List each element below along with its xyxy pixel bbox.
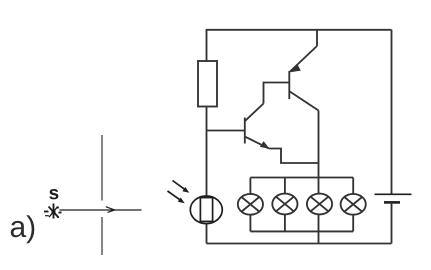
photoresistor LDR [190, 196, 222, 224]
wire lamp L1 bottom stub [249, 215, 251, 232]
lamp L1 [238, 194, 263, 215]
light source star S [44, 204, 62, 219]
slit screen lower half [101, 217, 103, 255]
wire lamp bus to bottom rail [318, 231, 320, 243]
wire lamp bottom bus [250, 230, 353, 232]
label a) [11, 215, 35, 243]
wire battery - to bottom rail [391, 202, 393, 243]
wire right side (top rail to battery +) [391, 30, 393, 195]
lamp L2 [272, 194, 297, 215]
wire lamp L3 top stub [318, 178, 320, 194]
transistor Q2 (PNP) [289, 46, 318, 111]
light ray with arrow [60, 207, 142, 213]
label S (light source) [49, 189, 58, 199]
wire lamp L2 bottom stub [284, 214, 286, 231]
battery B1 [375, 194, 412, 202]
wire top rail [206, 29, 392, 31]
wire lamp L4 bottom stub [352, 215, 354, 232]
wire top rail to Q2 emitter [316, 30, 318, 46]
light arrow 1 into LDR [173, 181, 190, 193]
wire bottom rail [207, 243, 392, 245]
light arrow 2 into LDR [168, 191, 185, 203]
lamp L3 [307, 194, 332, 215]
wire lamp L3 bottom stub [318, 214, 320, 231]
wire lamp L4 top stub [352, 178, 354, 195]
wire lamp L2 top stub [284, 178, 286, 194]
wire Q1 emitter to lamp feed [269, 149, 319, 164]
wire lamp top bus [250, 177, 353, 179]
wire resistor to photoresistor (node at base junction) [206, 107, 208, 197]
wire Q1 base [207, 130, 245, 132]
slit screen upper half [101, 135, 103, 201]
lamp L4 [341, 194, 366, 215]
wire Q2 collector down to lamp bus [318, 111, 320, 178]
resistor [198, 61, 217, 107]
wire lamp L1 top stub [249, 178, 251, 195]
wire Q1 collector to Q2 base [264, 83, 290, 104]
wire photoresistor to bottom rail [206, 223, 208, 243]
wire top rail to resistor [206, 30, 208, 61]
transistor Q1 (NPN) [245, 104, 270, 149]
